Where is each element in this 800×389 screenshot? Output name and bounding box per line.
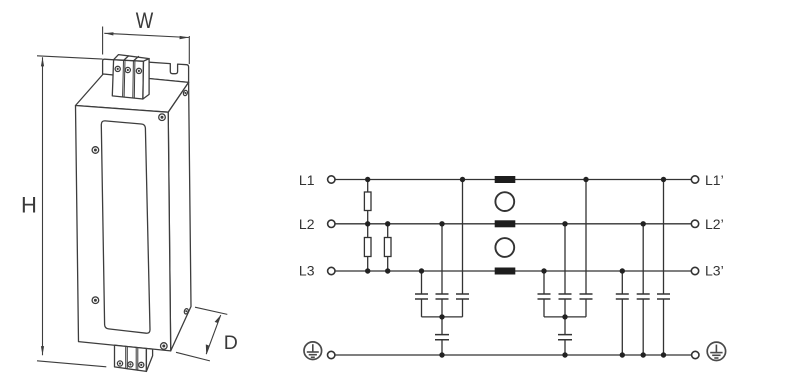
D arrowhead top	[215, 315, 221, 323]
svg-text:L1: L1	[299, 172, 315, 188]
capacitor group 3: Cy from L2 to ground	[637, 224, 650, 355]
front cover lid (rounded rectangle)	[101, 121, 150, 333]
terminal L3'	[691, 267, 698, 274]
svg-text:L2’: L2’	[705, 216, 724, 232]
bottom terminal block divider 2	[136, 348, 138, 371]
choke core circle bottom	[495, 238, 514, 257]
dimension D	[176, 307, 227, 361]
bottom terminal block: right face	[146, 349, 152, 372]
D extension line top	[195, 307, 227, 314]
front screw bottom-left	[92, 297, 99, 304]
top terminal block divider 1	[123, 60, 125, 97]
H dimension line	[42, 57, 44, 355]
top terminal screw 1	[115, 66, 120, 71]
W arrowhead left	[104, 32, 113, 35]
svg-text:W: W	[136, 8, 154, 33]
junction dots ground bus	[439, 352, 666, 357]
bottom terminal screw 1	[117, 361, 122, 366]
side screw bottom	[184, 308, 189, 314]
bottom terminal screw 3	[139, 362, 144, 367]
capacitor group 2: Cx from L3	[538, 271, 551, 317]
bottom terminal screw 2	[128, 362, 133, 367]
H extension line top	[37, 56, 103, 59]
W dimension line	[104, 33, 189, 37]
terminal L2'	[691, 220, 698, 227]
top terminal screw 2	[125, 67, 130, 72]
W arrowhead right	[180, 36, 189, 39]
ground symbol left	[304, 342, 322, 360]
capacitor group 2: Cy to ground	[558, 317, 572, 355]
resistor R3 (L2-L3)	[384, 224, 391, 271]
body right side face	[168, 82, 191, 351]
junction dots L1	[365, 177, 666, 182]
H arrowhead bottom	[41, 346, 44, 355]
capacitor group 1: Cx from L3	[415, 271, 428, 317]
top terminal block divider 2	[133, 61, 135, 98]
H extension line bottom	[37, 361, 106, 367]
dimension W	[103, 27, 190, 65]
resistor R2 (L2-L3)	[364, 224, 371, 271]
wire L3	[335, 270, 691, 272]
capacitor group 2: Cx from L1	[580, 180, 593, 317]
body top face	[76, 74, 189, 112]
ground bus wire	[335, 354, 692, 356]
bottom terminal block divider 1	[126, 346, 128, 368]
top terminal block top-face dividers	[124, 56, 139, 61]
terminal L2	[328, 220, 335, 227]
junction dots L2	[365, 221, 646, 226]
terminal L1'	[691, 176, 698, 183]
front screw top-left	[92, 147, 99, 154]
front screw top-right	[159, 114, 166, 121]
wire L2	[335, 223, 691, 225]
H arrowhead top	[41, 57, 44, 66]
side screw top	[183, 90, 188, 96]
ground terminal left	[328, 351, 335, 358]
W extension line right	[188, 36, 190, 64]
D arrowhead bottom	[206, 344, 209, 354]
top terminal block: front face	[112, 60, 143, 99]
capacitor group 1: Cx from L2	[436, 224, 449, 317]
top terminal block: right face	[143, 59, 149, 99]
junction dots mid bars	[439, 314, 567, 319]
terminal L3	[328, 267, 335, 274]
ground symbol right	[707, 342, 725, 360]
junction dots L3	[365, 268, 625, 273]
capacitor group 2: Cx from L2	[559, 224, 572, 317]
top terminal block: top face	[114, 55, 150, 62]
capacitor group 3: Cy from L1 to ground	[657, 180, 670, 356]
mounting flange (top plate with notch)	[103, 59, 189, 82]
wire L1	[335, 179, 691, 181]
inductor L3 winding	[495, 268, 516, 275]
body front face	[76, 106, 171, 351]
svg-text:H: H	[21, 193, 37, 218]
capacitor group 3: Cy from L3 to ground	[616, 271, 629, 355]
top terminal screw 3	[136, 68, 141, 73]
svg-text:L2: L2	[299, 216, 315, 232]
svg-text:L1’: L1’	[705, 172, 724, 188]
D extension line bottom	[176, 352, 210, 361]
ground terminal right	[692, 351, 699, 358]
choke core circle top	[495, 192, 514, 211]
capacitor group 2 joining bar	[544, 316, 586, 318]
capacitor group 1: Cy to ground	[435, 317, 449, 355]
capacitor group 1: Cx from L1	[456, 180, 469, 317]
D dimension line	[206, 315, 221, 354]
resistor R1 (L1-L2)	[364, 180, 371, 224]
inductor L1 winding	[495, 176, 516, 183]
svg-text:L3: L3	[299, 263, 315, 279]
W extension line left	[102, 27, 104, 55]
svg-text:D: D	[224, 332, 238, 354]
dimension H	[37, 56, 106, 367]
capacitor group 1 joining bar	[422, 316, 463, 318]
front screw bottom-right	[161, 343, 168, 350]
svg-text:L3’: L3’	[705, 263, 724, 279]
bottom terminal block: front face	[115, 345, 147, 371]
terminal L1	[328, 176, 335, 183]
inductor L2 winding	[495, 220, 516, 227]
